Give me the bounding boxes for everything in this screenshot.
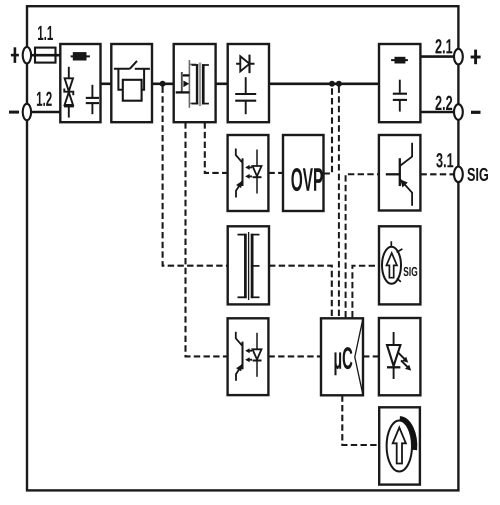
block RECT rectifier: [228, 44, 269, 122]
wire dashed uC to LED block: [363, 355, 379, 357]
wire dashed J1 down to transformer block T2: [163, 87, 228, 266]
label 1.1: [38, 26, 53, 40]
block PWM switching stage: [174, 44, 216, 122]
node J2 junction dot: [329, 81, 335, 87]
wire dashed node J3 down to uC: [338, 87, 340, 318]
capacitor C3: [399, 80, 401, 93]
potentiometer circle: [387, 421, 412, 472]
SIG arrow up: [386, 253, 397, 278]
terminal 2.1 circle: [454, 49, 463, 65]
relay contact S1: [114, 68, 130, 70]
optocoupler U2 LED: [256, 150, 258, 194]
transformer T1: [192, 64, 199, 66]
varistor RV1 filled box: [71, 55, 90, 57]
wire bus block RECT to block FILT: [269, 83, 379, 86]
uC notch: [355, 318, 363, 395]
capacitor C1: [91, 85, 93, 97]
optocoupler U2 phototransistor: [236, 149, 243, 163]
block OVP overvoltage protection: [283, 135, 324, 211]
label + output: [474, 50, 477, 65]
block Q2 signal output transistor: [379, 135, 421, 211]
optocoupler U2 light arrows: [248, 166, 252, 168]
wire dashed optocoupler U2 to OVP block: [268, 172, 283, 174]
transistor Q1 MOSFET: [188, 60, 190, 108]
potentiometer thick arc: [400, 419, 415, 451]
terminal 3.1 circle: [454, 167, 463, 183]
label SIG output: [467, 168, 488, 181]
diode D2: [236, 63, 254, 65]
LED D3 emission arrows: [398, 352, 405, 359]
wire input + from terminal through fuse to block IN1: [28, 54, 60, 57]
label - output: [471, 111, 481, 114]
wire block FILT to terminal 2.1: [420, 55, 455, 58]
terminal 1.1 circle: [23, 47, 31, 63]
wire dashed PWM block down to optocoupler U4: [186, 122, 228, 356]
wire bus block IN2 to block PWM: [152, 83, 174, 86]
wire dashed uC down to potentiometer block: [342, 395, 379, 445]
resistor R1 box: [118, 69, 122, 90]
block T2 signal transformer: [228, 226, 269, 304]
capacitor C2: [245, 77, 247, 93]
block U2 optocoupler feedback: [228, 135, 269, 211]
block IN1 input protection: [60, 44, 100, 122]
label 3.1: [436, 153, 453, 168]
label - input: [9, 111, 19, 114]
optocoupler U4 phototransistor: [236, 332, 243, 346]
fuse F1: [35, 48, 56, 63]
block LED indicator: [379, 318, 421, 395]
wire dashed optocoupler U4 to uC: [268, 355, 321, 357]
wire dashed uC up and right to SIG source block: [352, 266, 379, 318]
wire dashed transistor Q2 to terminal 3.1: [420, 173, 455, 175]
wire bus block IN1 to block IN2: [101, 83, 112, 86]
block potentiometer output adjust: [379, 407, 420, 484]
transistor Q2: [386, 173, 400, 175]
block SIG current source: [379, 226, 420, 304]
label 2.2: [435, 96, 452, 110]
SIG source circle: [382, 247, 401, 284]
block U1 microcontroller: [321, 318, 363, 395]
label uC: [334, 347, 352, 375]
wire bus block PWM to block RECT: [216, 83, 228, 86]
wire input - from terminal to block IN1: [28, 111, 60, 114]
node J1 junction dot: [160, 81, 166, 87]
optocoupler U4 LED: [256, 333, 258, 377]
SIG source ticks: [390, 241, 392, 247]
label SIG inside block: [403, 267, 417, 276]
block FILT output filter: [379, 44, 420, 122]
block U4 optocoupler control: [228, 318, 269, 395]
wire dashed OVP block up to node J2: [324, 87, 333, 174]
wire dashed uC up and right to transistor Q2: [346, 174, 379, 317]
optocoupler U4 light arrows: [248, 350, 252, 352]
LED D3: [393, 332, 395, 379]
label + input: [14, 47, 17, 63]
block IN2 inrush limiter: [111, 44, 152, 122]
potentiometer arrow up: [393, 428, 406, 464]
TVS diode D1 bidirectional: [68, 67, 70, 79]
wire dashed PWM block down to optocoupler U2: [205, 122, 228, 173]
label 1.2: [37, 92, 52, 106]
wire dashed transformer T2 to node down to uC: [269, 266, 332, 318]
transformer T2 windings: [238, 234, 247, 236]
node J3 junction dot: [336, 81, 342, 87]
terminal 1.2 circle: [23, 104, 31, 120]
label 2.1: [435, 39, 452, 53]
inductor L1 filled box: [391, 59, 408, 61]
terminal 2.2 circle: [454, 104, 463, 120]
label OVP: [291, 168, 322, 191]
wire block FILT to terminal 2.2: [420, 111, 455, 114]
